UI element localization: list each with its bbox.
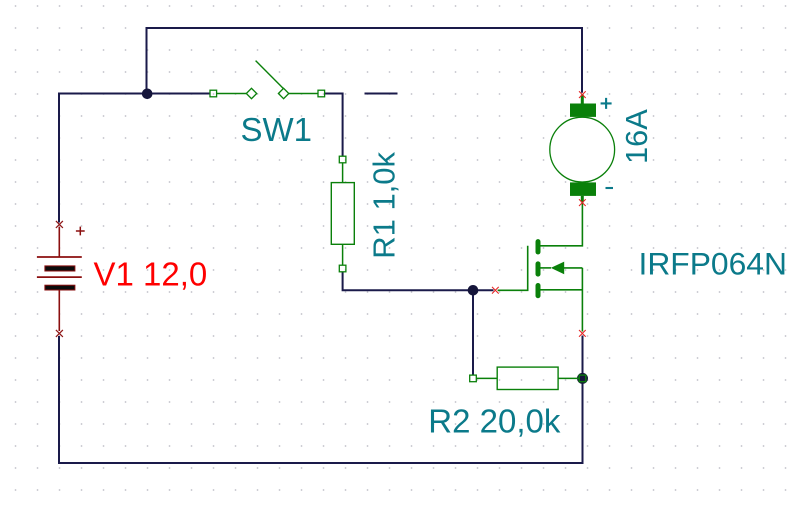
svg-text:IRFP064N: IRFP064N [639, 246, 787, 282]
svg-text:R1 1,0k: R1 1,0k [367, 151, 402, 258]
svg-text:16A: 16A [619, 109, 654, 164]
svg-text:R2 20,0k: R2 20,0k [428, 402, 561, 439]
svg-text:V1 12,0: V1 12,0 [94, 255, 208, 292]
svg-text:SW1: SW1 [241, 111, 313, 148]
